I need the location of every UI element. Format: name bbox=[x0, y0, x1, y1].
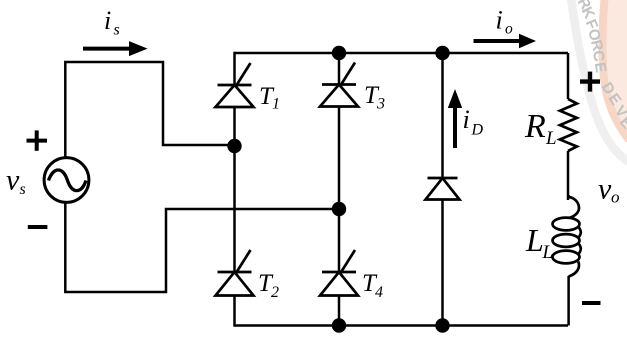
junction dot diode bottom bbox=[435, 318, 449, 332]
svg-text:v: v bbox=[598, 173, 612, 206]
freewheel branch leads bbox=[441, 53, 444, 326]
bottom rail bbox=[235, 324, 569, 327]
svg-text:s: s bbox=[20, 181, 26, 198]
junction dot diode top bbox=[435, 46, 449, 60]
plus sign load bbox=[580, 72, 600, 92]
label T3 bbox=[364, 82, 385, 113]
plus sign source bbox=[27, 130, 48, 150]
svg-text:2: 2 bbox=[271, 284, 279, 301]
label LL bbox=[525, 222, 553, 263]
svg-text:L: L bbox=[525, 222, 544, 258]
label iD bbox=[463, 105, 484, 139]
svg-text:o: o bbox=[611, 188, 620, 207]
voltage source VS circle bbox=[44, 158, 89, 203]
watermark text RKFORCE DEVE bbox=[574, 0, 627, 132]
top rail bbox=[235, 52, 569, 55]
svg-text:i: i bbox=[104, 6, 111, 35]
resistor RL zigzag bbox=[560, 99, 577, 151]
minus sign source bbox=[28, 225, 48, 229]
svg-text:L: L bbox=[545, 128, 557, 149]
branch T3 T4 vertical leads bbox=[338, 52, 341, 327]
label io bbox=[496, 6, 514, 38]
label vs bbox=[6, 163, 26, 198]
load branch bottom lead bbox=[567, 276, 570, 326]
svg-text:3: 3 bbox=[376, 96, 385, 113]
voltage source sine wave bbox=[49, 170, 87, 191]
watermark stamp inner circle bbox=[602, 0, 627, 140]
current arrow io bbox=[474, 34, 537, 48]
inductor LL coil bbox=[553, 195, 581, 277]
svg-text:v: v bbox=[6, 163, 20, 196]
svg-text:L: L bbox=[542, 242, 554, 263]
svg-text:R: R bbox=[524, 108, 546, 145]
svg-text:D: D bbox=[471, 122, 484, 139]
thyristor T4 bbox=[320, 250, 358, 296]
freewheeling diode D bbox=[426, 178, 460, 200]
label is bbox=[104, 6, 120, 39]
thyristor T2 bbox=[216, 250, 254, 296]
load branch middle lead bbox=[567, 151, 570, 200]
junction dot T3 top bbox=[332, 46, 346, 60]
thyristor T3 bbox=[320, 63, 358, 107]
label T2 bbox=[258, 270, 279, 301]
wire source bottom to node B bbox=[65, 202, 339, 292]
watermark stamp arc band bbox=[570, 0, 627, 164]
label T1 bbox=[259, 83, 280, 113]
branch T1 T2 vertical leads bbox=[233, 52, 236, 327]
current arrow is bbox=[83, 41, 148, 56]
svg-text:s: s bbox=[114, 22, 120, 39]
minus sign load bbox=[582, 301, 601, 305]
svg-text:1: 1 bbox=[272, 96, 280, 113]
junction dot T4 bottom bbox=[332, 318, 346, 332]
wire source top to node A bbox=[65, 62, 230, 158]
svg-text:4: 4 bbox=[375, 284, 383, 301]
thyristor T1 bbox=[216, 63, 254, 107]
svg-text:o: o bbox=[505, 21, 513, 38]
svg-text:i: i bbox=[463, 105, 470, 134]
svg-text:i: i bbox=[496, 6, 503, 35]
current arrow iD bbox=[448, 89, 462, 148]
node A junction dot bbox=[227, 139, 241, 153]
node B junction dot bbox=[332, 202, 346, 216]
label T4 bbox=[362, 270, 383, 301]
label vo bbox=[598, 173, 620, 207]
load branch top lead bbox=[567, 53, 570, 99]
label RL bbox=[524, 108, 557, 149]
